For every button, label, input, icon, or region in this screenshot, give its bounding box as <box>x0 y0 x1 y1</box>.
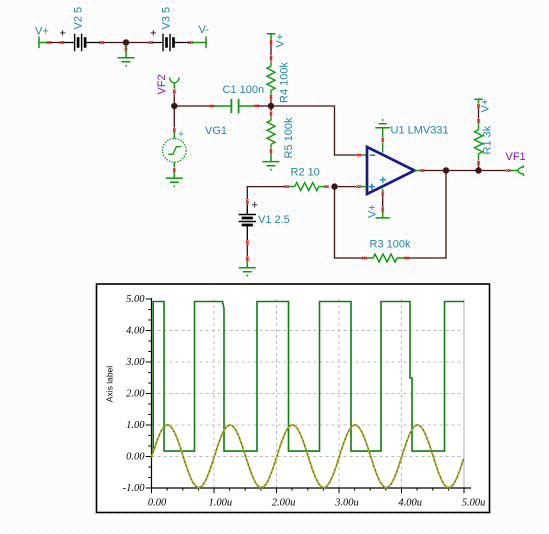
wire terminal to R1 <box>478 109 480 119</box>
svg-text:3.00u: 3.00u <box>334 498 359 509</box>
pin marker R4 bottom <box>270 95 272 100</box>
junction rail-ground <box>123 39 129 45</box>
plot gridlines <box>152 299 465 488</box>
wire V2 to junction <box>103 42 148 44</box>
svg-text:+: + <box>150 28 156 40</box>
terminal V+ below U1 <box>376 212 390 218</box>
probe VF2 <box>169 78 179 89</box>
wire terminal to R4 <box>270 45 272 55</box>
pin marker VG1 bottom <box>173 168 175 172</box>
pin marker VG1 top <box>173 128 175 132</box>
pin marker C1 left <box>210 105 214 107</box>
svg-text:V-: V- <box>199 24 210 36</box>
terminal V+ left <box>39 37 48 49</box>
label U1 minus <box>370 154 375 156</box>
svg-text:C1 100n: C1 100n <box>223 84 265 96</box>
pin marker R2 left <box>284 185 289 187</box>
svg-text:3.00: 3.00 <box>125 357 145 368</box>
pin marker U1 top <box>382 138 384 142</box>
label U1 plus input <box>369 184 375 190</box>
svg-text:R2 10: R2 10 <box>291 167 320 179</box>
svg-text:U1 LMV331: U1 LMV331 <box>391 125 449 137</box>
trace VF1 square wave <box>152 302 465 452</box>
svg-text:0.00: 0.00 <box>126 452 145 463</box>
resistor R2 <box>289 186 325 188</box>
svg-text:R5 100k: R5 100k <box>283 117 295 158</box>
pin marker U1 inverting input <box>356 154 361 156</box>
wire C1 to node B <box>258 105 271 107</box>
ground U1 V- <box>375 124 390 128</box>
resistor R1 <box>478 124 480 161</box>
ground V1 <box>246 261 248 267</box>
pin marker R5 bottom <box>270 149 272 153</box>
pin marker terminal U1 V+ <box>382 207 384 212</box>
wire node E to U1 plus input <box>335 186 357 188</box>
pin marker C1 right <box>254 105 259 107</box>
plot y ticks <box>146 299 152 488</box>
svg-text:4.00: 4.00 <box>126 326 145 337</box>
pin marker VF1 <box>506 169 511 171</box>
pin marker terminal R4 <box>270 41 272 46</box>
pin marker V2 right <box>99 41 104 43</box>
svg-text:0.00: 0.00 <box>148 498 167 509</box>
pin marker VF2 <box>173 90 175 95</box>
pin marker R3 left <box>362 257 367 259</box>
pin marker U1 plus input <box>356 185 361 187</box>
wire R3 to node E <box>335 187 363 258</box>
svg-text:R3 100k: R3 100k <box>370 239 411 251</box>
pin marker R1 top <box>477 119 479 123</box>
ground 1 <box>125 45 127 58</box>
generator VG1 <box>173 133 175 168</box>
ground VG1 <box>173 173 175 179</box>
svg-text:2.00u: 2.00u <box>272 498 296 509</box>
svg-text:-1.00: -1.00 <box>123 483 146 494</box>
svg-text:+: + <box>252 200 258 212</box>
node A junction <box>171 103 177 109</box>
pin marker R5 top <box>270 112 272 116</box>
wire V1 to ground <box>246 245 248 256</box>
terminal V- right <box>192 37 206 49</box>
node C junction <box>443 167 449 173</box>
resistor R4 <box>270 61 272 95</box>
wire U1 bottom <box>382 196 384 207</box>
node B junction <box>268 103 274 109</box>
node D junction <box>475 167 481 173</box>
plot axes <box>152 298 472 488</box>
svg-text:+: + <box>60 28 66 40</box>
plot data right edge <box>463 299 465 488</box>
wire node B to R5 <box>270 106 272 111</box>
svg-text:2.00: 2.00 <box>126 389 145 400</box>
wire node D to VF1 <box>479 170 507 172</box>
svg-text:4.00u: 4.00u <box>398 498 422 509</box>
svg-text:5.00u: 5.00u <box>462 498 486 509</box>
svg-text:VG1: VG1 <box>205 125 227 137</box>
trace VF2 sine wave dashes <box>152 425 464 488</box>
battery V3 <box>152 42 189 44</box>
svg-text:V3 5: V3 5 <box>161 7 173 30</box>
wire R4 to node B <box>270 100 272 106</box>
pin marker U1 bottom <box>382 191 384 196</box>
svg-text:+: + <box>178 129 184 141</box>
pin marker R2 right <box>324 185 329 187</box>
svg-text:V+: V+ <box>35 26 49 38</box>
svg-text:V2 5: V2 5 <box>73 7 85 30</box>
wire VF2 to node A <box>173 95 175 107</box>
wire output to node C <box>424 170 479 172</box>
probe VF1 <box>511 165 524 176</box>
pin marker V1 top <box>246 199 248 204</box>
pin marker R4 top <box>270 56 272 60</box>
terminal V+ above R4 <box>267 34 276 41</box>
op-amp U1 LMV331 <box>367 147 415 194</box>
svg-text:VF2: VF2 <box>156 74 168 94</box>
resistor R5 <box>270 117 272 149</box>
pin U1 V+ bottom <box>382 189 384 191</box>
wire node A to VG1 <box>173 106 175 128</box>
resistor R3 <box>367 257 405 259</box>
label U1 plus second <box>380 177 386 183</box>
node E junction <box>331 183 337 189</box>
svg-text:V1 2.5: V1 2.5 <box>258 214 290 226</box>
svg-text:V+: V+ <box>275 34 287 48</box>
capacitor C1 <box>214 105 255 107</box>
wire node B to U1 inverting input <box>271 106 356 155</box>
pin marker terminal V+ <box>47 41 51 43</box>
svg-text:5.00: 5.00 <box>126 294 145 305</box>
pin U1 V- top <box>382 143 384 153</box>
trace VF2 sine wave <box>152 425 464 488</box>
pin marker R1 bottom <box>477 161 479 165</box>
pin marker V3 right <box>188 41 193 43</box>
terminal V+ above R1 <box>474 99 482 103</box>
svg-text:Axis label: Axis label <box>105 366 115 402</box>
svg-text:1.00u: 1.00u <box>208 498 232 509</box>
pin marker terminal R1 <box>477 104 479 109</box>
plot x ticks <box>152 488 465 493</box>
pin marker ground 1 <box>125 47 127 51</box>
pin marker U1 output <box>420 169 425 171</box>
pin U1 output <box>415 170 420 172</box>
svg-text:R1 3k: R1 3k <box>482 125 494 154</box>
svg-text:V+: V+ <box>480 99 492 113</box>
wire V+ to V2 <box>51 42 62 44</box>
pin marker V1 bottom <box>246 240 248 245</box>
svg-text:VF1: VF1 <box>506 151 526 163</box>
battery V1 <box>246 204 248 240</box>
pin marker V2 left <box>60 41 64 43</box>
pin marker V3 left <box>148 41 153 43</box>
pin marker R3 right <box>404 257 409 259</box>
svg-text:R4 100k: R4 100k <box>279 62 291 103</box>
battery V2 <box>64 42 101 44</box>
wire R2 to V1 <box>247 187 284 199</box>
wire node A to C1 <box>174 105 210 107</box>
wire node C to R3 <box>409 171 446 259</box>
pin marker ground V1 <box>246 257 248 262</box>
ground R5 <box>270 154 272 162</box>
svg-text:1.00: 1.00 <box>126 420 145 431</box>
svg-text:V+: V+ <box>367 204 379 218</box>
plot frame <box>97 284 490 513</box>
